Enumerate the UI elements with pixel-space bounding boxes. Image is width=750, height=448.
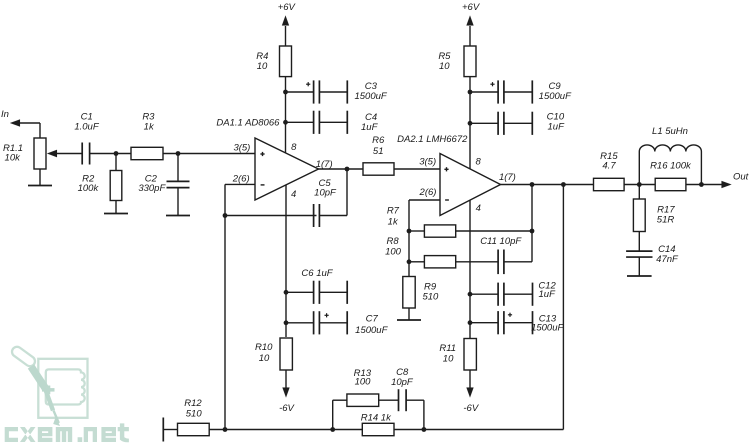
- svg-text:1k: 1k: [388, 216, 399, 227]
- svg-text:1500uF: 1500uF: [539, 91, 572, 102]
- svg-text:R11: R11: [439, 343, 456, 354]
- svg-text:51R: 51R: [657, 215, 675, 226]
- svg-text:100: 100: [385, 246, 402, 257]
- svg-text:10: 10: [259, 353, 270, 364]
- svg-text:-6V: -6V: [463, 403, 479, 414]
- svg-text:4: 4: [476, 203, 481, 214]
- svg-text:1uF: 1uF: [539, 289, 557, 300]
- svg-text:1(7): 1(7): [316, 159, 333, 170]
- svg-text:1500uF: 1500uF: [355, 325, 388, 336]
- svg-text:3(5): 3(5): [233, 142, 250, 153]
- svg-text:4: 4: [291, 189, 296, 200]
- svg-text:Out: Out: [733, 172, 749, 183]
- svg-text:+6V: +6V: [462, 2, 481, 13]
- svg-text:10: 10: [443, 354, 454, 365]
- svg-text:1uF: 1uF: [361, 122, 379, 133]
- svg-text:2(6): 2(6): [419, 187, 437, 198]
- svg-text:10k: 10k: [5, 153, 22, 164]
- svg-text:DA2.1 LMH6672: DA2.1 LMH6672: [397, 134, 468, 145]
- svg-text:4.7: 4.7: [602, 160, 616, 171]
- svg-text:10pF: 10pF: [314, 188, 337, 199]
- svg-text:51: 51: [373, 146, 384, 157]
- svg-text:510: 510: [186, 408, 203, 419]
- svg-text:10: 10: [439, 61, 450, 72]
- svg-text:510: 510: [422, 292, 439, 303]
- svg-text:R14 1k: R14 1k: [361, 413, 392, 424]
- svg-text:C11 10pF: C11 10pF: [480, 236, 522, 247]
- svg-text:100k: 100k: [78, 183, 100, 194]
- svg-text:1500uF: 1500uF: [531, 323, 564, 334]
- svg-text:R10: R10: [255, 342, 273, 353]
- svg-text:8: 8: [476, 156, 482, 167]
- svg-text:1uF: 1uF: [548, 122, 566, 133]
- svg-text:1500uF: 1500uF: [354, 91, 387, 102]
- svg-text:+6V: +6V: [278, 2, 297, 13]
- svg-text:1.0uF: 1.0uF: [74, 122, 99, 133]
- svg-text:R16 100k: R16 100k: [650, 161, 692, 172]
- svg-text:1k: 1k: [144, 121, 155, 132]
- svg-text:C7: C7: [366, 314, 379, 325]
- svg-text:100: 100: [355, 377, 372, 388]
- svg-text:L1 5uHn: L1 5uHn: [652, 126, 688, 137]
- svg-text:10: 10: [257, 61, 268, 72]
- svg-text:330pF: 330pF: [138, 183, 166, 194]
- svg-text:C6 1uF: C6 1uF: [301, 268, 333, 279]
- svg-text:DA1.1 AD8066: DA1.1 AD8066: [216, 118, 280, 129]
- svg-text:47nF: 47nF: [656, 254, 679, 265]
- svg-text:-6V: -6V: [279, 403, 295, 414]
- svg-text:R7: R7: [387, 205, 400, 216]
- svg-text:3(5): 3(5): [419, 156, 436, 167]
- svg-text:R6: R6: [372, 135, 385, 146]
- svg-text:1(7): 1(7): [499, 172, 516, 183]
- svg-text:In: In: [1, 109, 9, 120]
- svg-text:10pF: 10pF: [391, 377, 414, 388]
- svg-text:2(6): 2(6): [232, 173, 250, 184]
- svg-text:8: 8: [291, 142, 297, 153]
